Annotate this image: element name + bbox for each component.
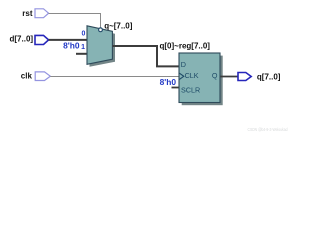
svg-text:q[0]~reg[7..0]: q[0]~reg[7..0] [160, 41, 211, 50]
svg-text:clk: clk [21, 71, 33, 80]
svg-text:D: D [181, 60, 186, 69]
svg-text:Q: Q [212, 71, 218, 80]
svg-text:CSDN @b4-9-3-Weloukad: CSDN @b4-9-3-Weloukad [248, 127, 288, 132]
bus wire d to mux input 0 [49, 39, 88, 41]
mux select bubble [99, 28, 103, 32]
svg-text:rst: rst [22, 9, 33, 18]
clock edge triangle [179, 73, 183, 79]
svg-text:SCLR: SCLR [181, 86, 200, 95]
svg-text:8'h0: 8'h0 [160, 77, 177, 87]
svg-text:CLK: CLK [185, 71, 199, 80]
svg-text:q[7..0]: q[7..0] [257, 72, 281, 81]
wire clk to register CLK [50, 76, 179, 78]
svg-text:d[7..0]: d[7..0] [10, 35, 34, 44]
svg-text:q~[7..0]: q~[7..0] [104, 22, 133, 31]
wire rst to mux select [49, 14, 101, 29]
input port rst [22, 9, 48, 18]
bus wire mux output to register D [112, 46, 179, 66]
register q[0]~reg[7..0] shadow [182, 56, 223, 106]
register q[0]~reg[7..0] [179, 53, 220, 103]
svg-text:1: 1 [81, 44, 85, 51]
input port d[7..0] [10, 35, 49, 45]
svg-text:8'h0: 8'h0 [63, 41, 80, 51]
mux q~[7..0] shadow [90, 28, 116, 67]
svg-text:0: 0 [81, 31, 85, 38]
output port q[7..0] [238, 72, 281, 81]
mux q~[7..0] [87, 26, 112, 65]
bus stub constant to SCLR [172, 87, 180, 89]
bus wire register Q to output port [221, 76, 239, 78]
bus stub constant to mux input 1 [76, 53, 88, 55]
input port clk [21, 71, 51, 80]
